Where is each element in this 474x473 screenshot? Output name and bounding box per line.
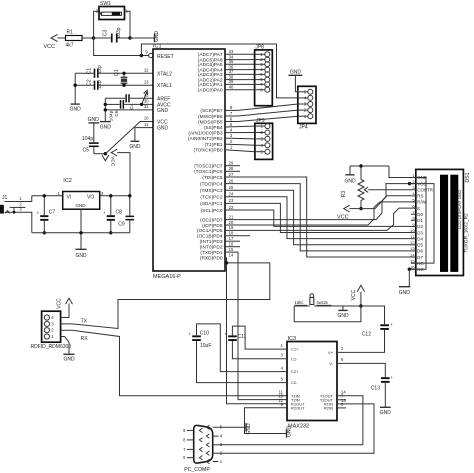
- svg-text:13: 13: [410, 246, 415, 251]
- junction AVCC/arrow: [140, 103, 143, 106]
- power flag VCC above MAX232: [351, 285, 364, 306]
- svg-text:103p: 103p: [116, 27, 122, 38]
- svg-text:(SCK)PB7: (SCK)PB7: [200, 108, 222, 114]
- svg-text:7: 7: [230, 111, 233, 116]
- svg-text:(OC1A)PD5: (OC1A)PD5: [197, 228, 223, 234]
- svg-text:23: 23: [229, 198, 234, 203]
- svg-text:D7: D7: [417, 255, 423, 260]
- net 16kc / swt15 with series element: [294, 294, 361, 306]
- ground at RFID pin 1: [61, 337, 75, 363]
- svg-text:1: 1: [19, 196, 22, 201]
- svg-text:CONTR: CONTR: [417, 187, 433, 192]
- wire C11 top to C1+: [232, 326, 287, 349]
- svg-text:RX: RX: [81, 336, 89, 342]
- wire MCU TXD to MAX232 T2IN: [225, 252, 287, 400]
- svg-text:4: 4: [281, 365, 284, 370]
- svg-text:(ICP)PD6: (ICP)PD6: [202, 223, 223, 229]
- svg-text:Q1: Q1: [114, 69, 120, 76]
- regulator IC2 body: [57, 178, 104, 209]
- svg-text:3: 3: [281, 352, 284, 357]
- svg-text:(INT0)PD2: (INT0)PD2: [200, 245, 223, 251]
- junction LCD pin2: [408, 182, 411, 185]
- svg-text:(OC1B)PD4: (OC1B)PD4: [197, 234, 223, 240]
- wire C11 bottom to C1-: [232, 341, 287, 359]
- crystal Q1: [114, 69, 128, 85]
- svg-text:IC2: IC2: [63, 178, 72, 184]
- svg-text:VCC: VCC: [109, 156, 115, 167]
- wire LCD pin1 to pin16 (backlight K): [409, 178, 426, 270]
- junction R3 bottom (VCC net): [359, 207, 362, 210]
- wire PC0 to LCD D2: [225, 210, 411, 226]
- wire PD6 to LCD RW: [225, 202, 411, 225]
- LCD label texts: [457, 172, 471, 252]
- svg-text:1: 1: [220, 459, 223, 464]
- svg-text:V-: V-: [329, 361, 333, 366]
- capacitor C5 104p: [82, 123, 105, 154]
- resistor R1 4k7: [58, 30, 94, 49]
- svg-text:25: 25: [229, 185, 234, 190]
- RESET pin 9 inversion circle: [149, 53, 153, 57]
- capacitor C3 103p: [94, 27, 130, 42]
- svg-text:C1: C1: [87, 68, 93, 75]
- capacitor C8 (electrolytic): [103, 196, 122, 233]
- junction C2 left: [74, 84, 77, 87]
- svg-text:D5: D5: [417, 243, 423, 248]
- svg-text:C5: C5: [83, 148, 90, 154]
- RESET net junction to ISP header: [140, 54, 143, 57]
- MCU right pin numbers: [229, 49, 234, 258]
- svg-text:4k7: 4k7: [66, 43, 74, 49]
- svg-text:C10: C10: [200, 331, 209, 337]
- ground at R3 top: [344, 166, 356, 185]
- svg-text:TX: TX: [81, 318, 88, 324]
- svg-text:JP8: JP8: [255, 45, 264, 51]
- svg-text:SW1: SW1: [100, 1, 111, 7]
- svg-text:+: +: [391, 375, 394, 380]
- svg-text:C2+: C2+: [291, 369, 299, 374]
- svg-text:C1+: C1+: [291, 347, 299, 352]
- svg-text:XTAL1: XTAL1: [157, 83, 172, 89]
- svg-text:8: 8: [230, 105, 233, 110]
- svg-text:14: 14: [229, 253, 234, 258]
- ground above JP4: [288, 70, 302, 92]
- svg-text:4: 4: [51, 315, 54, 320]
- junction RXD net: [225, 261, 228, 264]
- svg-text:R2IN: R2IN: [324, 406, 333, 411]
- svg-text:C7: C7: [49, 209, 56, 215]
- svg-text:7: 7: [183, 447, 186, 452]
- svg-text:26: 26: [229, 178, 234, 183]
- svg-text:VCC: VCC: [351, 289, 357, 300]
- MAX232 left pin names: [291, 347, 305, 411]
- svg-text:(TOSC2)PC7: (TOSC2)PC7: [194, 164, 223, 170]
- wire RFID RX to MAX232 T1IN: [61, 330, 287, 396]
- junction GND row: [104, 108, 107, 111]
- wire R1IN to PC_COMP pin 2: [218, 404, 374, 453]
- junction R3 top: [359, 164, 362, 167]
- svg-text:C2-: C2-: [291, 380, 298, 385]
- svg-text:+: +: [390, 322, 393, 327]
- svg-text:17: 17: [229, 236, 234, 241]
- svg-text:GND: GND: [157, 108, 169, 114]
- VCC arrow pointing left (regulator output): [111, 149, 117, 156]
- stub PC6 pin 28: [225, 170, 240, 172]
- ground (rotated) at DB9 pin 5: [218, 423, 251, 435]
- svg-text:D1: D1: [417, 218, 423, 223]
- ground below C13: [380, 383, 392, 416]
- node B junction: [128, 36, 131, 39]
- svg-text:(ADC5)PA5: (ADC5)PA5: [198, 62, 223, 68]
- svg-text:(AIN1/OC0)PB3: (AIN1/OC0)PB3: [188, 130, 222, 136]
- capacitor C2 22p: [75, 79, 153, 90]
- svg-text:(INT1)PD3: (INT1)PD3: [200, 239, 223, 245]
- wire GND rail to LCD pin1: [389, 166, 426, 178]
- svg-text:(TOSC1)PC6: (TOSC1)PC6: [194, 169, 223, 175]
- svg-text:(SCL)PC0: (SCL)PC0: [201, 208, 223, 214]
- svg-text:1: 1: [57, 191, 60, 196]
- svg-text:D6: D6: [417, 249, 423, 254]
- svg-text:VCC: VCC: [157, 120, 168, 126]
- svg-text:swt15: swt15: [317, 300, 329, 305]
- svg-text:2: 2: [341, 346, 344, 351]
- svg-text:C2: C2: [87, 79, 93, 86]
- svg-text:C12: C12: [362, 332, 371, 338]
- wire VCC to C12: [361, 306, 385, 324]
- svg-text:12: 12: [144, 68, 149, 73]
- junction LCD pin16: [408, 268, 411, 271]
- wires MCU PB4-PB0 to JP9: [225, 126, 255, 152]
- svg-text:GND: GND: [129, 144, 141, 150]
- wire V+ to C12: [337, 330, 385, 353]
- wire XTAL2 row: [98, 72, 153, 74]
- svg-text:GND: GND: [154, 31, 160, 43]
- capacitor C12 (electrolytic): [362, 322, 393, 338]
- svg-text:(SDA)PC1: (SDA)PC1: [200, 201, 223, 207]
- svg-text:(ADC1)PA1: (ADC1)PA1: [198, 82, 223, 88]
- svg-text:29: 29: [229, 161, 234, 166]
- header JP9: [255, 118, 273, 159]
- svg-text:4: 4: [220, 434, 223, 439]
- svg-text:3: 3: [51, 321, 54, 326]
- LCD module DS1 body: [416, 169, 464, 275]
- svg-text:(ADC7)PA7: (ADC7)PA7: [198, 52, 223, 58]
- svg-text:C3: C3: [102, 30, 108, 37]
- svg-text:28: 28: [229, 166, 234, 171]
- svg-text:RESET: RESET: [157, 54, 174, 60]
- wire AVCC row with capacitor C6 104p: [105, 100, 153, 121]
- junction C8 bottom: [109, 231, 112, 234]
- VCC arrow pointing down (MCU VCC): [102, 154, 115, 167]
- svg-text:D4: D4: [417, 236, 423, 241]
- MCU right pin names PB: [188, 108, 223, 153]
- junction VO corner: [128, 194, 131, 197]
- svg-text:22: 22: [229, 205, 234, 210]
- svg-text:24: 24: [229, 192, 234, 197]
- connector PC_COMP DB9: [183, 425, 223, 473]
- junction AVCC row: [104, 103, 107, 106]
- net stub T2OUT pin 7: [337, 399, 346, 401]
- MAX232 right pin names: [320, 350, 334, 411]
- svg-text:4: 4: [230, 127, 233, 132]
- node A junction (RESET net): [92, 36, 95, 39]
- svg-text:10: 10: [144, 116, 149, 121]
- svg-text:IC3: IC3: [288, 336, 297, 342]
- svg-text:GND: GND: [246, 423, 252, 435]
- svg-text:D0: D0: [417, 212, 423, 217]
- svg-text:RDFID_RDM6300: RDFID_RDM6300: [31, 344, 72, 350]
- wire MAX232 R1OUT to RXD net: [227, 263, 288, 404]
- svg-text:GND: GND: [88, 117, 100, 123]
- capacitor C1 22p: [75, 65, 103, 78]
- svg-text:5: 5: [230, 122, 233, 127]
- svg-text:D2: D2: [417, 224, 423, 229]
- junction C5/VCC node: [104, 152, 107, 155]
- capacitor C11: [225, 331, 247, 341]
- svg-text:VCC: VCC: [44, 44, 56, 50]
- ground (rotated) at C3/SW1: [154, 31, 160, 43]
- svg-text:GND: GND: [399, 290, 411, 296]
- junction crystal bottom: [122, 84, 125, 87]
- wire GND row (pin 31): [105, 109, 153, 111]
- wires MCU PA to JP8: [225, 54, 255, 89]
- LCD glass bar 1: [440, 175, 448, 272]
- svg-text:PC_COMP: PC_COMP: [184, 467, 210, 473]
- svg-text:MEGA16-P: MEGA16-P: [153, 274, 181, 280]
- wire T1OUT to PC_COMP pin 3: [218, 396, 363, 445]
- junction C8 top: [109, 194, 112, 197]
- svg-text:TUXGR_16X2_R2: TUXGR_16X2_R2: [463, 213, 469, 253]
- svg-text:10: 10: [410, 228, 415, 233]
- svg-text:10uF: 10uF: [200, 343, 211, 349]
- capacitor C9: [118, 196, 134, 233]
- svg-text:(TDO)PC4: (TDO)PC4: [200, 181, 223, 187]
- capacitor C13 (electrolytic): [371, 375, 394, 392]
- svg-text:15: 15: [229, 247, 234, 252]
- svg-text:J1: J1: [2, 195, 8, 201]
- svg-text:104p: 104p: [82, 136, 93, 142]
- header JP4: [298, 86, 316, 130]
- svg-text:(SS)PB4: (SS)PB4: [204, 125, 223, 131]
- VCC arrow on AVCC net: [142, 90, 148, 104]
- vertical join AREF/AVCC/GND rows: [104, 98, 106, 121]
- ground symbol below IC2: [75, 209, 87, 259]
- svg-text:3: 3: [101, 191, 104, 196]
- LCD glass bar 2: [450, 175, 458, 272]
- svg-text:JP4: JP4: [299, 125, 308, 131]
- ground rail below IC2: [32, 232, 130, 234]
- svg-text:(OC2)PD7: (OC2)PD7: [200, 217, 223, 223]
- ground (rotated) at R2OUT: [286, 426, 292, 438]
- stub PD2 pin 16: [225, 246, 240, 248]
- svg-text:21: 21: [229, 214, 234, 219]
- ground below AREF cluster: [100, 122, 112, 131]
- svg-text:DS1: DS1: [465, 172, 471, 182]
- svg-text:GND: GND: [100, 125, 112, 131]
- net stub R2IN pin 8: [337, 407, 346, 409]
- wire C1/C2 ground leg: [74, 73, 76, 104]
- wire VCC to LCD pin2: [361, 184, 410, 209]
- wire C10 top to C2+: [197, 324, 288, 372]
- svg-text:(T0/XCK)PB0: (T0/XCK)PB0: [193, 148, 222, 154]
- power flag VCC (reset pull-up): [44, 35, 58, 51]
- ground at MCU GND pin 11: [129, 128, 153, 150]
- svg-text:(MOSI)PB5: (MOSI)PB5: [198, 119, 223, 125]
- svg-text:(TCK)PC2: (TCK)PC2: [200, 195, 222, 201]
- svg-text:C9: C9: [118, 221, 125, 227]
- svg-text:MAX232: MAX232: [288, 423, 309, 429]
- trimmer R3: [341, 166, 411, 209]
- stub PC7 pin 29: [225, 165, 240, 167]
- svg-text:1: 1: [51, 334, 54, 339]
- svg-text:(RXD)PD0: (RXD)PD0: [200, 256, 223, 262]
- wires MCU PB7-PB5 to JP4 (diagonals): [225, 104, 298, 122]
- svg-text:C8: C8: [116, 209, 123, 215]
- svg-text:30: 30: [144, 99, 149, 104]
- wire MAX232 R2OUT to ground: [245, 408, 288, 434]
- wire LCD pin2 to pin15 (backlight A): [410, 184, 435, 264]
- svg-text:+: +: [103, 211, 106, 216]
- svg-text:GND: GND: [63, 357, 75, 363]
- svg-text:31: 31: [144, 104, 149, 109]
- switch SW1: [96, 1, 129, 19]
- ground above C5 (inverted): [88, 117, 100, 123]
- svg-text:C1-: C1-: [291, 356, 298, 361]
- wire node A down to RESET pin: [94, 38, 149, 56]
- svg-text:5: 5: [281, 376, 284, 381]
- svg-text:R3: R3: [341, 191, 347, 198]
- svg-text:8: 8: [183, 437, 186, 442]
- svg-text:GND: GND: [337, 313, 349, 319]
- wire junction A to SW1 pin 2: [94, 11, 99, 38]
- svg-text:(AIN0/INT2)PB2: (AIN0/INT2)PB2: [188, 136, 223, 142]
- connector J1 power jack: [0, 195, 32, 233]
- svg-text:22p: 22p: [97, 80, 103, 89]
- svg-text:2: 2: [51, 328, 54, 333]
- svg-text:(TXD)PD1: (TXD)PD1: [200, 250, 222, 256]
- svg-text:(T1)PB1: (T1)PB1: [205, 142, 223, 148]
- ground below C1/C2: [70, 104, 82, 112]
- svg-text:VI: VI: [67, 194, 72, 200]
- capacitor C7 (electrolytic): [37, 196, 56, 233]
- svg-text:LCD DISPLAY 16x2: LCD DISPLAY 16x2: [457, 189, 462, 229]
- ground below LCD: [399, 269, 411, 296]
- svg-text:40: 40: [229, 85, 234, 90]
- stub PD3 pin 17: [225, 240, 240, 242]
- svg-text:13: 13: [144, 79, 149, 84]
- junction crystal top: [122, 72, 125, 75]
- MAX232 pin numbers: [278, 343, 346, 407]
- capacitor C10 10uF: [189, 331, 212, 349]
- svg-text:27: 27: [229, 172, 234, 177]
- svg-text:33: 33: [229, 49, 234, 54]
- svg-text:GND: GND: [290, 70, 302, 76]
- wire J1 to IC2 VI: [32, 195, 63, 197]
- svg-text:GND: GND: [380, 410, 392, 416]
- junction VCC node: [359, 304, 362, 307]
- diagonal wire VCC node to MCU VCC pin 10: [105, 122, 153, 154]
- svg-text:RS: RS: [417, 194, 423, 199]
- RFID header RDFID_RDM6300: [31, 311, 72, 350]
- svg-text:6: 6: [341, 357, 344, 362]
- svg-text:16kc: 16kc: [295, 300, 305, 305]
- wire PC2 to LCD D4: [225, 197, 411, 239]
- MCU right pin names PD: [197, 217, 223, 261]
- svg-text:GND: GND: [75, 253, 87, 259]
- svg-text:16: 16: [229, 242, 234, 247]
- svg-text:9: 9: [145, 50, 148, 55]
- MCU left pin names: [157, 54, 174, 131]
- svg-text:GND: GND: [157, 126, 169, 132]
- wire VCC arrow to regulator VO rail: [117, 153, 130, 196]
- wire node B to ground: [130, 37, 155, 39]
- wire C10 bottom to C2-: [197, 341, 288, 383]
- MCU left pin numbers: [144, 68, 149, 127]
- wire RFID TX to MCU RXD (via loop): [61, 258, 270, 329]
- LCD pin stubs, numbers and names: [410, 173, 433, 272]
- second plate of C1: [97, 69, 99, 78]
- svg-text:2: 2: [230, 139, 233, 144]
- wire PC5 to LCD D7: [225, 177, 411, 257]
- svg-text:V+: V+: [328, 350, 334, 355]
- svg-text:+: +: [225, 331, 228, 336]
- svg-text:C6: C6: [114, 110, 120, 116]
- svg-text:1: 1: [230, 145, 233, 150]
- svg-text:20: 20: [229, 220, 234, 225]
- svg-text:VO: VO: [87, 194, 94, 200]
- svg-text:32: 32: [144, 93, 149, 98]
- svg-text:VCC: VCC: [57, 298, 63, 309]
- svg-text:(ADC0)PA0: (ADC0)PA0: [198, 88, 223, 94]
- wire AREF row with capacitor C4: [105, 94, 153, 109]
- wire PC3 to LCD D5: [225, 190, 411, 245]
- svg-text:(TMS)PC3: (TMS)PC3: [200, 188, 223, 194]
- stub PD4 pin 18: [225, 235, 250, 237]
- svg-text:GND: GND: [70, 107, 82, 113]
- svg-text:GND: GND: [76, 203, 87, 208]
- wire V- to C13: [337, 363, 385, 377]
- wire RESET to JP4 pin 4: [141, 44, 297, 98]
- IC3 MAX232 body: [287, 336, 337, 429]
- junction IC2 GND/rail: [79, 231, 82, 234]
- svg-text:+: +: [37, 211, 40, 216]
- svg-text:9: 9: [281, 402, 284, 407]
- svg-text:6: 6: [230, 116, 233, 121]
- svg-text:12: 12: [410, 240, 415, 245]
- wire loop below 16kc net: [294, 306, 361, 322]
- junction C7 bottom: [43, 231, 46, 234]
- svg-text:XTAL2: XTAL2: [157, 71, 172, 77]
- power flag VCC at R3 bottom: [337, 205, 361, 220]
- svg-text:3: 3: [230, 133, 233, 138]
- power flag VCC at RFID: [57, 298, 73, 318]
- svg-text:6: 6: [183, 455, 186, 460]
- svg-text:(MISO)PB6: (MISO)PB6: [198, 114, 223, 120]
- svg-text:GND: GND: [344, 179, 356, 185]
- svg-text:(ADC3)PA3: (ADC3)PA3: [198, 72, 223, 78]
- svg-text:IC1: IC1: [153, 44, 162, 50]
- svg-text:C13: C13: [371, 386, 380, 392]
- svg-text:18: 18: [229, 231, 234, 236]
- wire SW1 pin 1 to node B: [125, 11, 131, 38]
- wire PD7 to LCD RS: [225, 196, 411, 220]
- ground at swt15 net: [337, 306, 349, 319]
- svg-text:E: E: [417, 206, 420, 211]
- svg-text:19: 19: [229, 225, 234, 230]
- wire IC2 VO rail: [100, 195, 130, 197]
- svg-text:+: +: [189, 331, 192, 336]
- junction C7 top: [43, 194, 46, 197]
- wire PD5 to LCD E: [225, 208, 411, 230]
